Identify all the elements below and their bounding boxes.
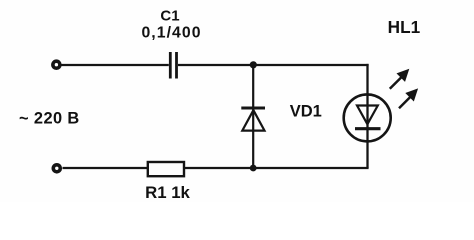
wire right vertical — [366, 64, 368, 168]
wire bottom: left terminal to resistor — [63, 167, 148, 169]
terminal bottom-left — [53, 165, 60, 172]
wire top: left terminal to capacitor — [62, 64, 169, 66]
diode VD1 — [241, 108, 265, 131]
terminal top-left — [53, 61, 60, 68]
wire VD1 branch vertical — [252, 65, 254, 168]
svg-text:VD1: VD1 — [290, 103, 322, 121]
LED arrow 1 — [390, 70, 409, 89]
node junction top — [250, 61, 257, 68]
svg-text:HL1: HL1 — [388, 17, 421, 37]
wire bottom: resistor to right corner — [184, 167, 369, 169]
svg-text:R1 1k: R1 1k — [145, 183, 190, 202]
resistor R1 — [148, 162, 184, 176]
capacitor C1 — [170, 52, 176, 79]
svg-text:~ 220 В: ~ 220 В — [19, 110, 80, 128]
svg-text:C1: C1 — [160, 8, 179, 25]
wire top: capacitor to right corner — [178, 64, 369, 66]
LED arrow 2 — [399, 89, 417, 108]
svg-text:0,1/400: 0,1/400 — [141, 25, 201, 42]
LED HL1 — [344, 94, 391, 141]
node junction bottom — [250, 165, 257, 172]
